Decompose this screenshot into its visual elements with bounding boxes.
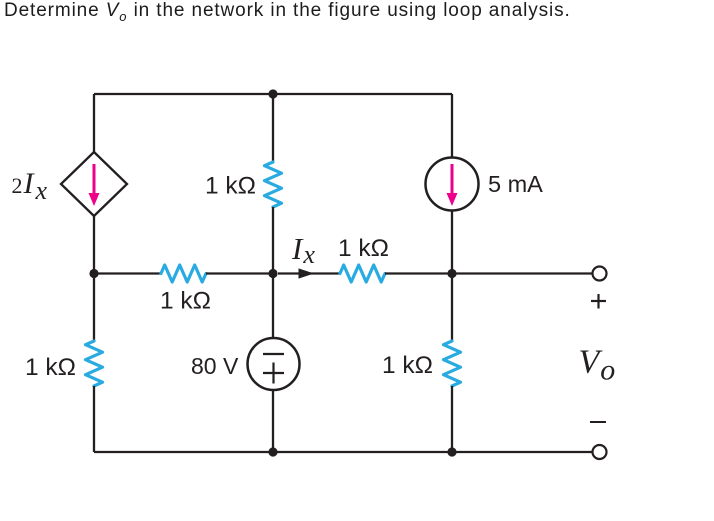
- label 2Ix: [12, 167, 48, 205]
- current source 5mA (circle): [426, 158, 479, 211]
- svg-text:Ix: Ix: [291, 231, 315, 269]
- wire mid rail fourth segment: [385, 272, 452, 274]
- label 5 mA: [488, 171, 543, 197]
- node dot mid-right: [447, 269, 456, 278]
- label Vo: [579, 344, 616, 387]
- svg-text:1 kΩ: 1 kΩ: [205, 173, 256, 200]
- voltage source 80V (circle with - +): [248, 338, 300, 390]
- svg-text:80 V: 80 V: [191, 353, 239, 379]
- wire left column upper (top rail to diamond): [93, 94, 95, 152]
- wire mid rail to output terminal: [452, 272, 593, 274]
- label 1 kOhm horizontal left: [160, 288, 211, 315]
- node dot mid-left: [89, 269, 98, 278]
- label 80 V: [191, 353, 239, 379]
- wire left column bottom: [93, 386, 95, 452]
- svg-text:Vo: Vo: [579, 344, 616, 387]
- wire left column lower (mid rail to resistor): [93, 274, 95, 342]
- wire middle column upper: [272, 94, 274, 162]
- svg-text:1 kΩ: 1 kΩ: [338, 235, 389, 262]
- output terminal top (open circle): [593, 267, 607, 281]
- label 1 kOhm left vertical: [25, 354, 76, 381]
- label 1 kOhm middle vertical: [205, 173, 256, 200]
- label 1 kOhm right vertical: [382, 352, 433, 379]
- wire mid rail second segment: [206, 272, 273, 274]
- wire bottom horizontal: [94, 451, 593, 453]
- wire right column upper: [451, 94, 453, 158]
- wire mid rail third segment: [308, 272, 340, 274]
- svg-text:1 kΩ: 1 kΩ: [382, 352, 433, 379]
- resistor 1k middle vertical: [265, 162, 282, 207]
- wire middle column (mid rail to voltage source): [272, 274, 274, 339]
- resistor 1k right vertical: [444, 341, 461, 386]
- wire left column (diamond to mid rail): [93, 216, 95, 274]
- wire right column lower (mid rail to resistor): [451, 274, 453, 342]
- svg-text:1 kΩ: 1 kΩ: [160, 288, 211, 315]
- wire middle column (resistor to mid rail): [272, 207, 274, 274]
- label Ix: [291, 231, 315, 269]
- resistor 1k horizontal right: [340, 265, 385, 282]
- node dot bottom-middle: [268, 447, 277, 456]
- svg-text:2Ix: 2Ix: [12, 167, 48, 205]
- wire top horizontal: [94, 93, 452, 95]
- plus sign of Vo: [591, 294, 606, 309]
- wire right column (source to mid rail): [451, 211, 453, 275]
- dependent current source 2Ix (diamond): [61, 152, 127, 216]
- output terminal bottom (open circle): [593, 445, 607, 459]
- node dot top middle: [268, 89, 277, 98]
- label 1 kOhm horizontal right: [338, 235, 389, 262]
- wire middle column bottom: [272, 390, 274, 452]
- svg-text:1 kΩ: 1 kΩ: [25, 354, 76, 381]
- node dot bottom-right: [447, 447, 456, 456]
- minus sign of Vo: [590, 421, 606, 423]
- svg-text:5 mA: 5 mA: [488, 171, 543, 197]
- resistor 1k left vertical: [86, 341, 103, 386]
- Ix current arrow: [278, 268, 314, 278]
- wire right column bottom: [451, 386, 453, 452]
- resistor 1k horizontal left: [161, 265, 206, 282]
- wire mid rail left segment: [94, 272, 161, 274]
- node dot mid-middle: [268, 269, 277, 278]
